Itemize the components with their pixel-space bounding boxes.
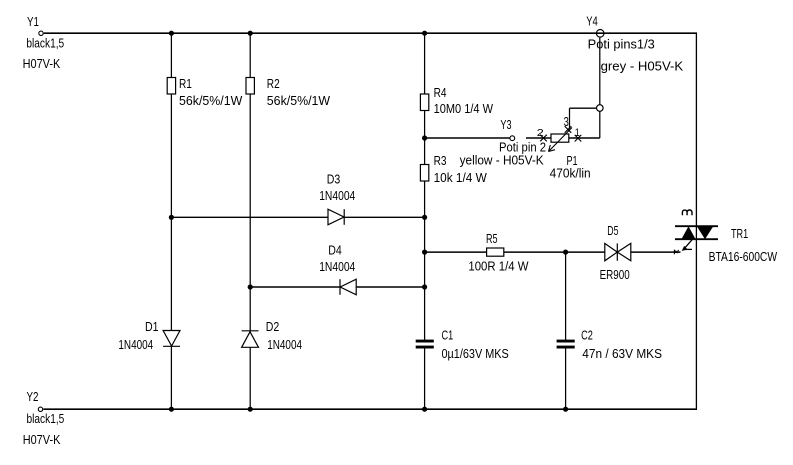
resistor R1 xyxy=(167,78,175,95)
svg-text:black1,5: black1,5 xyxy=(27,411,65,426)
svg-text:Y1: Y1 xyxy=(27,14,39,29)
svg-text:C2: C2 xyxy=(581,328,593,343)
wire circle up to Y4 xyxy=(599,38,601,105)
resistor R2 xyxy=(246,78,254,95)
junction D3 wire left xyxy=(169,215,174,220)
wire vertical branch R1/D1 xyxy=(170,33,172,409)
resistor R3 xyxy=(420,165,428,182)
diode D4 xyxy=(340,279,356,295)
svg-text:BTA16-600CW: BTA16-600CW xyxy=(709,249,778,264)
svg-text:D5: D5 xyxy=(607,223,618,238)
svg-text:ER900: ER900 xyxy=(600,267,630,282)
svg-text:1N4004: 1N4004 xyxy=(118,337,153,352)
svg-text:yellow - H05V-K: yellow - H05V-K xyxy=(460,152,545,167)
svg-text:R3: R3 xyxy=(434,153,447,168)
svg-text:10M0 1/4 W: 10M0 1/4 W xyxy=(434,101,494,116)
wire P1 pin 1 vertical up to circle xyxy=(599,108,601,138)
svg-text:1N4004: 1N4004 xyxy=(267,337,302,352)
terminal Y2 xyxy=(38,407,42,411)
svg-text:56k/5%/1W: 56k/5%/1W xyxy=(179,93,243,108)
svg-text:black1,5: black1,5 xyxy=(26,35,64,50)
svg-text:R5: R5 xyxy=(486,231,498,246)
svg-text:Y4: Y4 xyxy=(586,13,598,28)
wire R5/gate horizontal xyxy=(425,251,681,253)
svg-text:TR1: TR1 xyxy=(731,226,748,241)
svg-text:56k/5%/1W: 56k/5%/1W xyxy=(267,93,331,108)
resistor R4 xyxy=(420,94,428,111)
wire P1 pin 3 vertical xyxy=(569,108,571,129)
junction R5 wire left xyxy=(422,250,427,255)
terminal Y4 xyxy=(596,30,604,38)
potentiometer P1 body xyxy=(551,134,569,142)
junction R5 wire at C2 xyxy=(563,250,568,255)
terminal Y3 xyxy=(510,136,515,141)
pin number 3 (TR1 top, rotated) xyxy=(682,210,692,215)
junction bottom rail at D2 xyxy=(248,407,253,412)
svg-text:H07V-K: H07V-K xyxy=(23,56,61,71)
junction top rail at R1 xyxy=(169,31,174,36)
diode D3 xyxy=(328,209,344,225)
wire vertical branch R2/D2 xyxy=(249,33,251,409)
junction bottom rail at C1 xyxy=(422,407,427,412)
diode D2 xyxy=(242,331,259,348)
wire C2 vertical lower xyxy=(565,348,567,409)
wire Y3 to P1 pin 2 xyxy=(526,137,551,139)
svg-text:1N4004: 1N4004 xyxy=(319,188,355,203)
terminal Y1 xyxy=(39,31,43,35)
node poti pins 1/3 circle xyxy=(597,105,604,112)
svg-text:10k 1/4 W: 10k 1/4 W xyxy=(434,170,488,185)
svg-text:D1: D1 xyxy=(145,319,159,334)
capacitor C2 xyxy=(557,340,575,349)
svg-text:0µ1/63V MKS: 0µ1/63V MKS xyxy=(442,346,509,361)
pin cross P1 pin 3 xyxy=(565,126,572,133)
potentiometer P1 wiper arrow xyxy=(549,128,573,152)
junction top rail at R2 xyxy=(248,31,253,36)
svg-text:D4: D4 xyxy=(328,242,342,257)
svg-text:Y3: Y3 xyxy=(500,117,511,132)
capacitor C1 xyxy=(416,340,434,349)
triac TR1 xyxy=(675,226,718,239)
svg-text:R1: R1 xyxy=(179,76,192,91)
svg-text:Poti pins1/3: Poti pins1/3 xyxy=(588,36,655,51)
junction bottom rail at D1 xyxy=(169,407,174,412)
wire P1 pin 1 horizontal xyxy=(569,137,600,139)
triac gate arrowhead xyxy=(682,246,688,251)
svg-text:D3: D3 xyxy=(327,172,341,187)
junction D4 wire left xyxy=(248,284,253,289)
wire Y3 left segment xyxy=(425,137,510,139)
junction top rail at R4 xyxy=(422,31,427,36)
junction Y3 wire xyxy=(422,135,427,140)
wire D3 horizontal xyxy=(171,216,424,218)
svg-text:C1: C1 xyxy=(442,328,454,343)
wire top rail Y1 to right corner xyxy=(44,32,697,34)
resistor R5 xyxy=(487,248,504,256)
wire right vertical rail xyxy=(695,33,697,409)
svg-text:Y2: Y2 xyxy=(27,389,39,404)
svg-text:3: 3 xyxy=(564,114,569,129)
junction D3 wire right xyxy=(422,215,427,220)
svg-text:100R 1/4 W: 100R 1/4 W xyxy=(468,258,529,273)
wire triac gate diagonal xyxy=(683,240,692,250)
wire bottom rail xyxy=(43,408,697,410)
pin cross P1 pin 1 xyxy=(575,135,582,142)
svg-text:R2: R2 xyxy=(267,76,280,91)
svg-text:H07V-K: H07V-K xyxy=(23,432,61,447)
diac D5 xyxy=(605,243,631,260)
junction bottom rail at C2 xyxy=(563,407,568,412)
wire D4 horizontal xyxy=(250,286,424,288)
junction D4 wire right xyxy=(422,284,427,289)
wire mid vertical branch C1 lower xyxy=(424,348,426,409)
pin number 2 (TR1 gate, rotated) xyxy=(674,250,678,255)
diode D1 xyxy=(163,331,180,347)
wire mid vertical branch R4/R3/C1 upper xyxy=(424,33,426,340)
svg-text:1: 1 xyxy=(575,127,580,139)
svg-text:47n / 63V MKS: 47n / 63V MKS xyxy=(582,346,662,361)
wire P1 pin 3 horizontal to circle xyxy=(570,107,600,109)
wire C2 vertical upper xyxy=(565,252,567,340)
pin cross P1 pin 2 xyxy=(540,135,547,142)
svg-text:R4: R4 xyxy=(434,85,447,100)
svg-text:D2: D2 xyxy=(266,319,280,334)
svg-text:2: 2 xyxy=(537,128,545,139)
wire triac gate barb xyxy=(685,248,692,250)
svg-text:470k/lin: 470k/lin xyxy=(550,166,591,181)
svg-text:1N4004: 1N4004 xyxy=(319,259,355,274)
svg-text:grey - H05V-K: grey - H05V-K xyxy=(601,59,684,74)
